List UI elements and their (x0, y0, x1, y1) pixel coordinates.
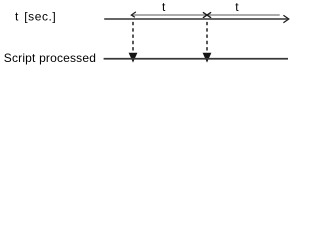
arrowhead triangle 2 (script start) (203, 53, 212, 63)
svg-text:Script processed: Script processed (4, 51, 96, 65)
wire: measurement line (132, 14, 280, 16)
arrowhead right of first interval (203, 12, 211, 17)
arrowhead triangle 1 (script start) (129, 53, 138, 63)
wire: script processed line (104, 58, 288, 60)
wire: time axis (gray) (104, 18, 287, 20)
wire: dashed drop line 1 (132, 22, 134, 53)
arrowhead left (measurement line) (131, 12, 136, 17)
wire: dashed drop line 2 (206, 22, 208, 53)
svg-text:[sec.]: [sec.] (24, 9, 56, 23)
arrowhead left of second interval (203, 12, 211, 17)
arrowhead of time axis (283, 15, 288, 22)
